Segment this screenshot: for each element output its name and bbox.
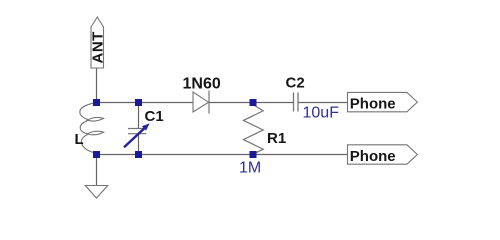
svg-text:Phone: Phone: [350, 95, 396, 112]
capacitor C2: [294, 93, 299, 112]
antenna symbol ANT: [89, 17, 106, 68]
wire ground stem: [96, 155, 98, 186]
svg-text:R1: R1: [267, 130, 286, 147]
wire top rail left segment: [97, 102, 194, 104]
wire bottom rail: [97, 154, 348, 156]
svg-text:10uF: 10uF: [303, 105, 340, 122]
svg-text:ANT: ANT: [89, 31, 106, 63]
svg-text:C2: C2: [286, 75, 305, 92]
svg-text:1M: 1M: [239, 159, 261, 176]
svg-text:1N60: 1N60: [183, 76, 221, 93]
wire ANT to top rail: [96, 68, 98, 103]
node bottom R1: [250, 151, 257, 158]
node top-left: [93, 99, 100, 106]
resistor R1: [243, 103, 263, 155]
ground: [85, 186, 107, 199]
node bottom C1: [135, 151, 142, 158]
svg-text:C1: C1: [145, 108, 164, 125]
node top C1: [135, 99, 142, 106]
diode 1N60: [193, 91, 209, 114]
variable capacitor C1: [124, 103, 150, 155]
wire diode to node: [209, 102, 294, 104]
node top R1: [250, 99, 257, 106]
connector Phone (top): [348, 92, 418, 112]
connector Phone (bottom): [348, 145, 418, 165]
svg-text:Phone: Phone: [350, 148, 396, 165]
node junctions: [93, 99, 257, 158]
svg-text:L: L: [75, 131, 84, 148]
wire C2 to top phone: [298, 102, 348, 104]
node bottom-left: [93, 151, 100, 158]
inductor L: [80, 103, 104, 153]
